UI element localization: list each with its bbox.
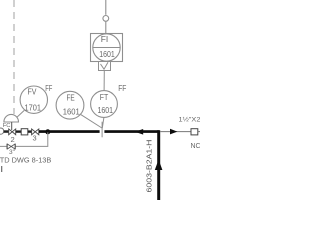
svg-text:FF: FF bbox=[45, 84, 52, 93]
svg-text:1601: 1601 bbox=[98, 105, 114, 115]
svg-text:1601: 1601 bbox=[63, 107, 80, 117]
svg-text:FF: FF bbox=[118, 84, 126, 93]
svg-text:2: 2 bbox=[10, 135, 14, 144]
svg-text:FC: FC bbox=[3, 123, 11, 129]
svg-text:FE: FE bbox=[66, 93, 75, 103]
svg-text:1601: 1601 bbox=[99, 49, 115, 59]
svg-text:FT: FT bbox=[100, 92, 109, 102]
svg-text:6003-B2A1-H: 6003-B2A1-H bbox=[144, 140, 153, 193]
svg-text:FI: FI bbox=[101, 35, 109, 44]
svg-text:STD DWG 8-13B: STD DWG 8-13B bbox=[0, 156, 51, 165]
svg-text:3: 3 bbox=[33, 134, 37, 143]
svg-text:FV: FV bbox=[28, 87, 37, 97]
svg-text:1701: 1701 bbox=[25, 103, 42, 113]
svg-text:NC: NC bbox=[191, 143, 201, 150]
svg-text:1½"X2: 1½"X2 bbox=[179, 116, 201, 124]
